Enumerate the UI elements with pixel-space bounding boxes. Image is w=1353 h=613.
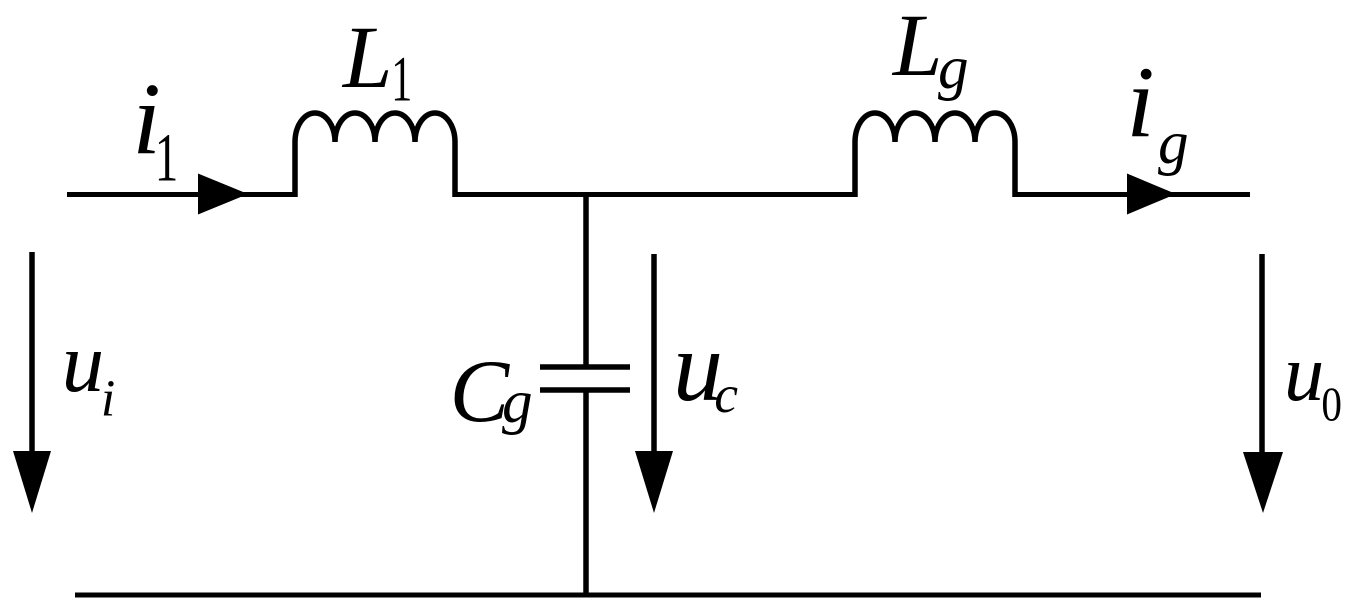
wire capacitor branch upper [583, 192, 589, 365]
svg-text:0: 0 [1321, 377, 1342, 431]
svg-text:i: i [101, 371, 115, 428]
inductor Lg [855, 113, 1015, 197]
inductor L1 [295, 113, 455, 197]
capacitor Cg top plate [540, 364, 630, 370]
voltage arrow u0 [1259, 254, 1265, 460]
wire top-right segment [1015, 192, 1250, 197]
svg-text:L: L [891, 0, 943, 95]
svg-text:g: g [502, 368, 533, 436]
svg-text:u: u [1284, 329, 1324, 418]
wire top-left segment [67, 192, 295, 197]
svg-text:g: g [1158, 109, 1189, 177]
svg-text:L: L [341, 9, 393, 107]
svg-text:1: 1 [155, 119, 179, 196]
svg-text:g: g [938, 34, 969, 102]
voltage arrow uc [651, 254, 657, 460]
current arrow i1 [198, 174, 248, 215]
current arrow ig [1127, 174, 1176, 215]
svg-text:1: 1 [391, 42, 412, 114]
wire top-middle segment [455, 192, 855, 197]
wire capacitor branch lower [583, 392, 589, 597]
wire bottom rail [75, 593, 1261, 598]
svg-text:c: c [714, 365, 738, 424]
svg-text:u: u [62, 316, 104, 410]
capacitor Cg bottom plate [540, 387, 630, 393]
voltage arrow ui [29, 252, 35, 460]
svg-text:i: i [1126, 45, 1154, 158]
